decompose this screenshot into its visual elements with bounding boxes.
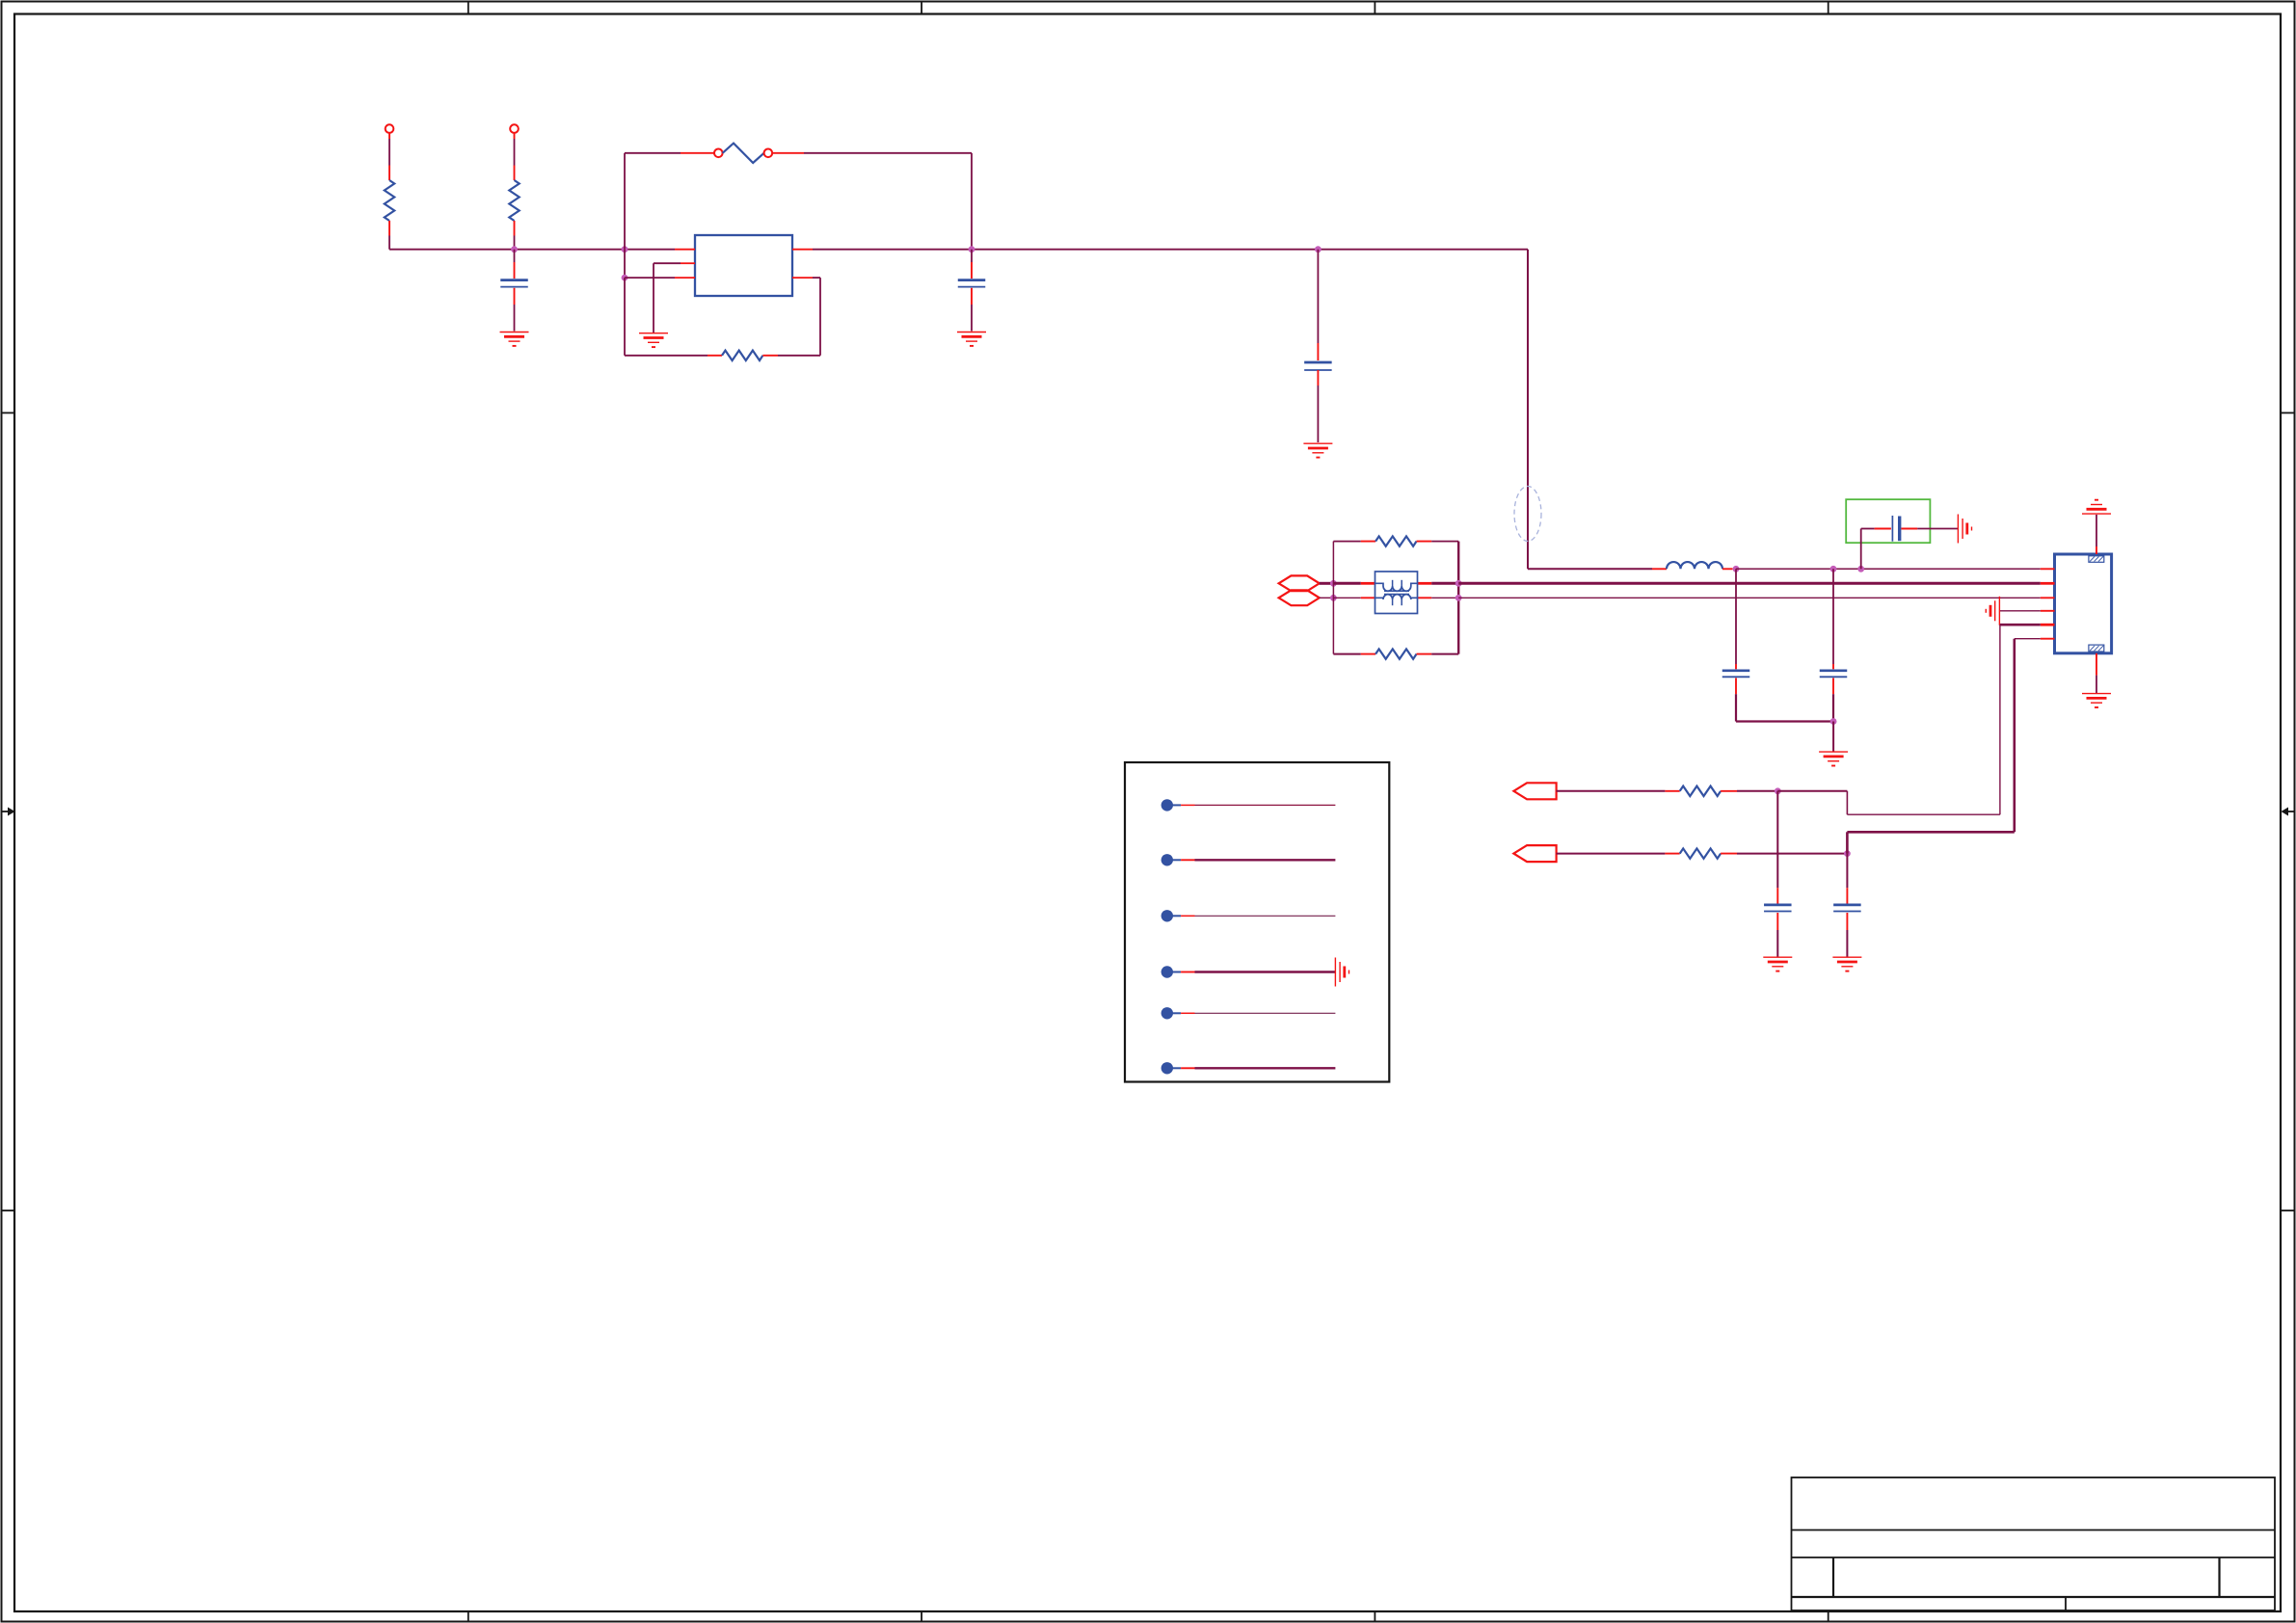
net TD- wire left [1320, 597, 1334, 599]
wire R6 to junction [1737, 790, 1777, 792]
ground C4-C5 [1819, 752, 1848, 765]
wire T1 pin4 [1418, 597, 1459, 599]
left mid-edge arrow [2, 808, 15, 816]
wire J1 bottom ground stub [2096, 653, 2097, 693]
net MDI0+ wire [1736, 568, 2041, 570]
ground TP4 (sideways) [1335, 958, 1348, 987]
capacitor CB (bypass) [1861, 516, 1959, 542]
test point TP4 [1161, 966, 1336, 977]
transformer T1 [1375, 572, 1418, 614]
hier port arrow A3 [1513, 783, 1556, 799]
wire fuse-loop left [624, 153, 626, 250]
junction bus-U1 [622, 246, 628, 253]
junction A2 node [1330, 595, 1337, 601]
wire pin3 node to U1 [625, 277, 675, 279]
ground C1 [500, 333, 529, 346]
resistor network frame right [1457, 542, 1459, 654]
resistor R7 [1665, 848, 1737, 858]
test point TP3 [1161, 910, 1336, 921]
wire T1 pin1 [1333, 582, 1375, 585]
resistor network frame left [1332, 542, 1334, 654]
wire J1 pin6 down [2015, 639, 2041, 833]
ground C2 [957, 333, 986, 346]
wire A4 to R7 [1557, 853, 1666, 855]
J1 pin 4 [2041, 610, 2055, 612]
resistor R1 [385, 166, 394, 236]
port terminal circle P1 [386, 124, 394, 133]
junction TX node [1844, 850, 1851, 857]
ground CB (sideways) [1958, 515, 1971, 544]
wire fuse-loop top-right [773, 152, 973, 154]
test point TP5 [1161, 1007, 1336, 1019]
J1 pin 6 [2041, 638, 2055, 640]
wire CB to net [1860, 529, 1862, 570]
test point TP6 [1161, 1062, 1336, 1074]
ground G1 [639, 333, 668, 347]
ground J1 top (inverted) [2082, 500, 2111, 514]
wire R7 to junction [1737, 853, 1847, 855]
wire R1 to bus [388, 236, 390, 250]
wire R2 to bus [514, 236, 516, 250]
port terminal circle P2 [510, 124, 519, 133]
junction T1 out lower [1455, 595, 1462, 601]
wire feedback loop [625, 278, 820, 356]
wire fuse-loop top-left [625, 152, 714, 154]
junction RX node [1775, 787, 1781, 794]
inductor L1 [1652, 562, 1733, 569]
capacitor C4 [1722, 569, 1750, 721]
junction bus-R2 [511, 246, 518, 253]
wire TX to pin6 path [1847, 832, 2014, 853]
capacitor C1 [500, 250, 528, 332]
wire fuse-loop right [971, 153, 973, 250]
wire U1 pin2 to ground [654, 263, 681, 333]
resistor R4 top rail [1333, 536, 1458, 545]
resistor R2 [509, 166, 519, 236]
capacitor C3 [1304, 250, 1332, 442]
J1 shield pad bottom [2089, 645, 2104, 652]
wire bus corner down [1528, 250, 1652, 570]
bus wire right [813, 249, 1528, 251]
U1 pin 2 [681, 262, 695, 264]
ground C3 [1303, 443, 1332, 457]
wire J1 top ground stub [2096, 515, 2097, 554]
junction C5 foot [1830, 718, 1837, 725]
capacitor C8 [1833, 854, 1861, 957]
ground J1 bottom [2082, 694, 2111, 707]
J1 shield pad top [2089, 556, 2104, 563]
hier port arrow A4 [1513, 845, 1556, 862]
junction bus right of U1 [969, 246, 975, 253]
J1 pin 3 [2041, 597, 2055, 599]
test point frame [1125, 762, 1389, 1082]
junction bus-C3 [1315, 246, 1322, 253]
wire T1 pin2 [1333, 597, 1375, 599]
test point TP1 [1161, 799, 1336, 811]
junction C5 tap [1830, 566, 1837, 572]
right mid-edge arrow [2282, 808, 2295, 816]
junction T1 out upper [1455, 580, 1462, 587]
U1 pin 1 [675, 249, 695, 251]
hier port arrow A2 [1279, 590, 1320, 605]
capacitor C2 [958, 250, 986, 332]
junction A1 node [1330, 580, 1337, 587]
hier port arrow A1 [1279, 575, 1320, 591]
J1 pin 1 [2041, 568, 2055, 570]
U1 pin 4 (right) [792, 249, 813, 251]
title block [1792, 1477, 2276, 1610]
U1 pin 5 (right) [792, 277, 813, 279]
resistor R5 bottom rail [1333, 649, 1458, 658]
wire J1 pin5 down [2000, 625, 2041, 814]
test point TP2 [1161, 854, 1336, 865]
wire P1 to R1 [388, 133, 390, 166]
wire T1 pin3 [1418, 582, 1459, 585]
resistor R6 [1665, 786, 1737, 796]
wire C5 foot to ground [1832, 722, 1834, 752]
J1 pin 2 [2041, 582, 2055, 585]
IC U1 [695, 235, 792, 296]
J1 pin 5 [2041, 624, 2055, 626]
net TD+ wire left [1320, 582, 1334, 585]
dashed ellipse marker [1514, 487, 1541, 542]
junction CB tap [1857, 566, 1864, 572]
net TD+ wire right [1458, 582, 2041, 585]
wire A3 to R6 [1557, 790, 1666, 792]
wire J1 pin4 to ground [1999, 610, 2040, 612]
junction U1 pin3 node [622, 275, 628, 281]
junction L1 out [1733, 566, 1740, 572]
connector J1 body [2055, 554, 2112, 653]
capacitor C7 [1764, 791, 1792, 957]
green highlight box [1846, 499, 1930, 543]
bus wire left [389, 249, 675, 251]
ground J1 pin4 (sideways) [1986, 597, 1999, 625]
resistor R3 [707, 351, 778, 360]
ground C7 [1763, 957, 1792, 971]
wire P2 to R2 [514, 133, 516, 166]
wire RX to pin5 path [1777, 791, 2000, 814]
U1 pin 3 [675, 277, 695, 279]
ground C8 [1832, 957, 1861, 971]
capacitor C5 [1820, 569, 1848, 721]
wire bus to pin3 node [624, 250, 626, 278]
net TD- wire right [1458, 597, 2041, 599]
fuse F1 [714, 144, 772, 163]
wire C4 to C5 foot [1736, 720, 1833, 722]
